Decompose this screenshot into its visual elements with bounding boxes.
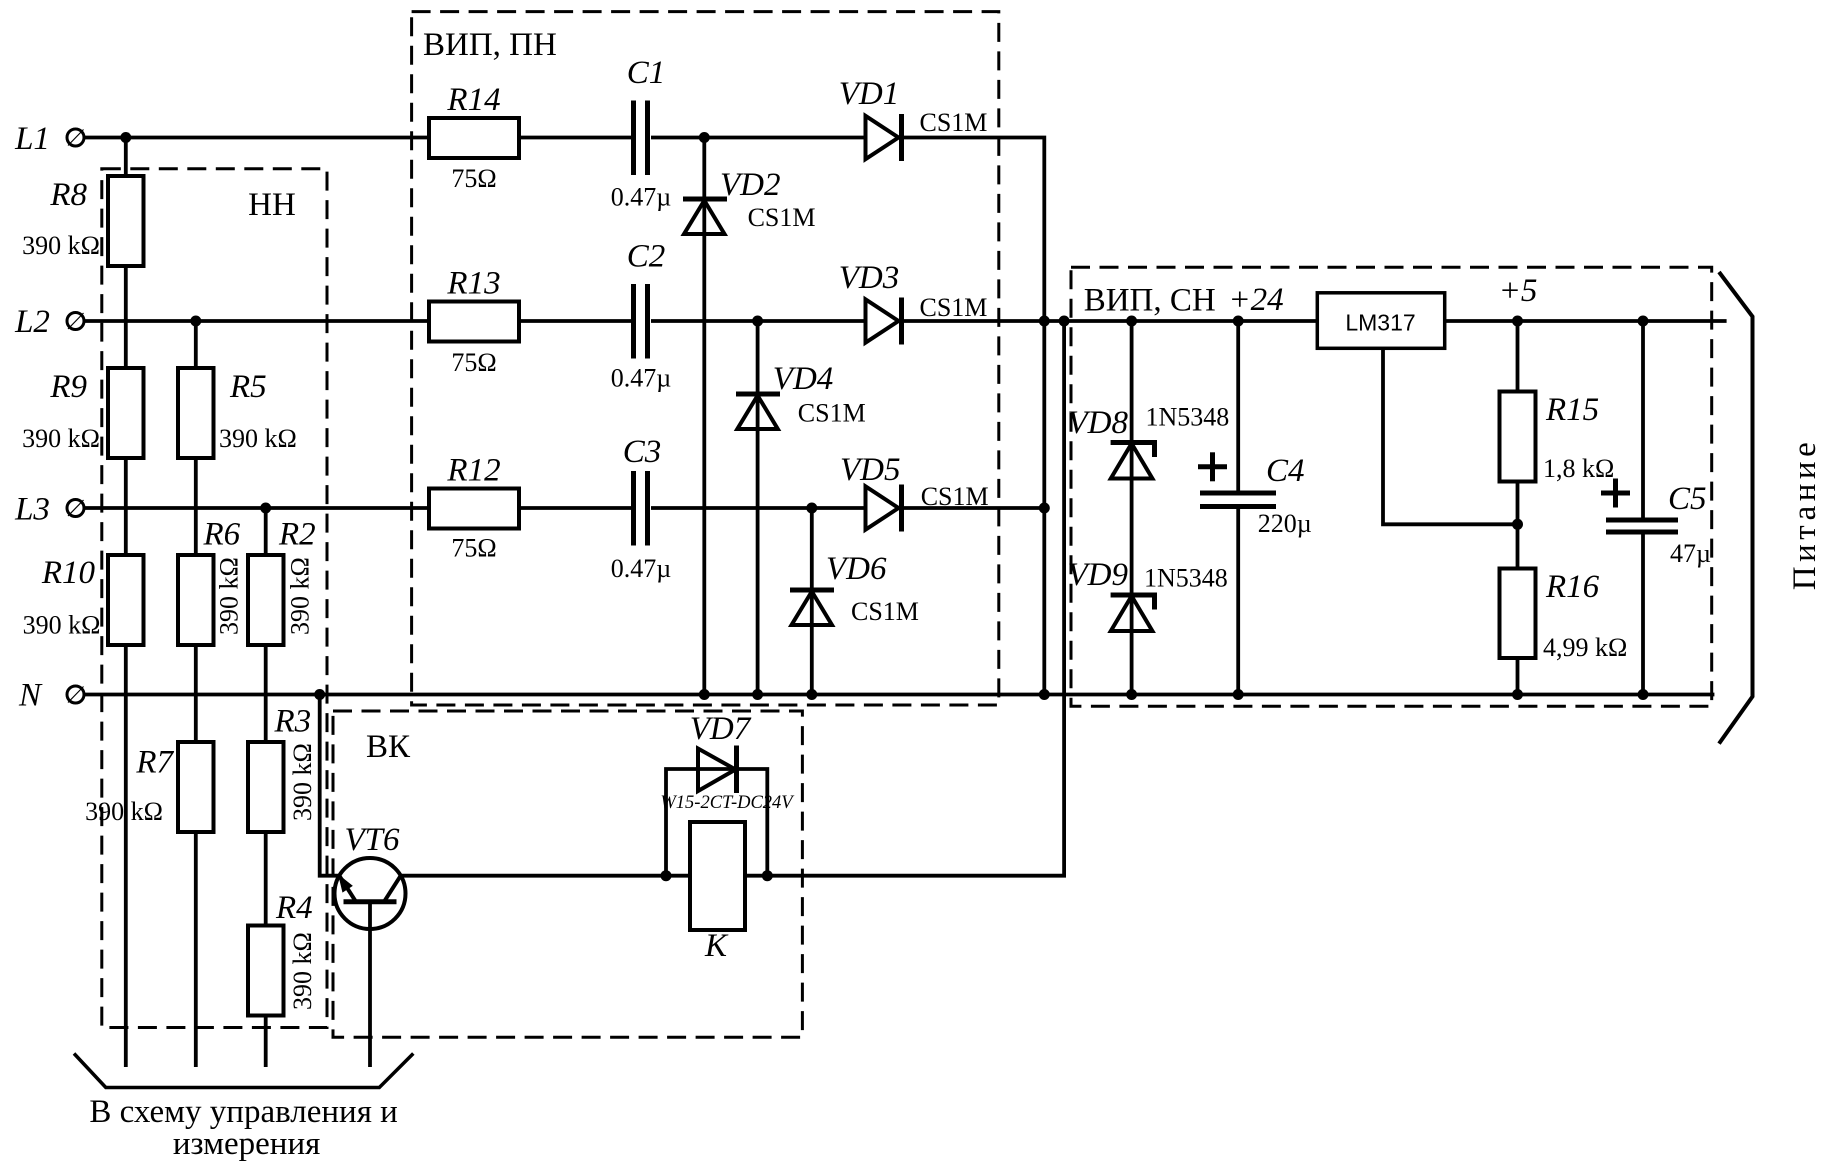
junction L1 / R8 column <box>120 132 131 143</box>
wire N to VT6 emitter <box>320 695 340 876</box>
zener diode VD8 <box>1111 443 1155 479</box>
svg-text:1,8 kΩ: 1,8 kΩ <box>1543 454 1614 483</box>
resistor R14 <box>429 118 519 158</box>
wire R15 R16 branch <box>1516 321 1520 695</box>
node N terminal <box>67 686 84 703</box>
block ВИП, ПН dashed box <box>412 12 999 705</box>
wire relay riser +24 to relay <box>401 321 1064 876</box>
junction +5 / R15 <box>1512 316 1523 327</box>
wire L2 rail / +24 rail <box>83 319 1727 323</box>
svg-text:R5: R5 <box>229 369 267 405</box>
junction relay left / VD7 <box>661 870 672 881</box>
svg-text:390 kΩ: 390 kΩ <box>286 557 315 635</box>
junction bus / VD5 output <box>1039 503 1050 514</box>
svg-text:VD6: VD6 <box>826 551 887 587</box>
diode VD5 <box>866 485 902 532</box>
svg-text:390 kΩ: 390 kΩ <box>215 557 244 635</box>
junction L3 / R2 column <box>260 503 271 514</box>
junction L1 / VD2 branch <box>699 132 710 143</box>
diode VD6 <box>790 590 834 625</box>
block НН dashed box <box>102 169 327 1028</box>
transistor Q1 VT6 <box>335 858 406 929</box>
node L3 terminal <box>67 500 84 517</box>
junction +24 / C4 <box>1233 316 1244 327</box>
svg-text:ВИП, ПН: ВИП, ПН <box>423 27 557 63</box>
wire VD4 branch <box>756 321 760 695</box>
svg-text:В схему управления и: В схему управления и <box>89 1094 397 1130</box>
diode VD1 <box>866 114 902 161</box>
svg-text:измерения: измерения <box>173 1126 320 1162</box>
svg-text:Питание: Питание <box>1787 438 1823 590</box>
wire L3 rail <box>83 506 1045 510</box>
node L1 terminal <box>67 129 84 146</box>
svg-text:47µ: 47µ <box>1670 539 1711 568</box>
svg-text:W15-2CT-DC24V: W15-2CT-DC24V <box>660 793 795 813</box>
svg-text:0.47µ: 0.47µ <box>611 183 672 212</box>
junction N / VD4 <box>752 689 763 700</box>
svg-text:C2: C2 <box>627 239 666 275</box>
resistor R3 <box>248 742 284 832</box>
resistor R7 <box>178 742 214 832</box>
svg-text:CS1M: CS1M <box>851 597 919 626</box>
capacitor C1 <box>634 101 648 176</box>
svg-text:R13: R13 <box>446 266 500 302</box>
svg-text:VD2: VD2 <box>720 167 781 203</box>
wire VD7 loop <box>666 769 767 876</box>
svg-text:220µ: 220µ <box>1258 509 1312 538</box>
svg-text:R8: R8 <box>49 177 87 213</box>
svg-text:VD8: VD8 <box>1068 405 1129 441</box>
junction N / VD2 <box>699 689 710 700</box>
svg-text:C5: C5 <box>1668 481 1707 517</box>
resistor R15 <box>1500 392 1536 482</box>
junction N / VT6 branch <box>314 689 325 700</box>
svg-text:LM317: LM317 <box>1345 310 1415 336</box>
svg-text:CS1M: CS1M <box>920 293 988 322</box>
junction +24 / relay riser <box>1059 316 1070 327</box>
svg-text:L2: L2 <box>14 304 50 340</box>
zener diode VD9 <box>1111 595 1155 631</box>
svg-text:CS1M: CS1M <box>748 203 816 232</box>
junction +24 / VD8 <box>1126 316 1137 327</box>
svg-text:VD4: VD4 <box>773 361 834 397</box>
svg-text:0.47µ: 0.47µ <box>611 364 672 393</box>
wire VT6 base lead <box>368 902 372 1067</box>
resistor R10 <box>108 555 144 645</box>
resistor R12 <box>429 489 519 529</box>
svg-text:VD1: VD1 <box>839 76 900 112</box>
svg-text:R2: R2 <box>278 517 316 553</box>
svg-text:VT6: VT6 <box>344 822 400 858</box>
svg-text:1N5348: 1N5348 <box>1144 564 1228 593</box>
junction L2 / VD4 branch <box>752 316 763 327</box>
svg-text:VD7: VD7 <box>690 711 752 747</box>
svg-text:390 kΩ: 390 kΩ <box>219 424 297 453</box>
junction N / bus <box>1039 689 1050 700</box>
junction L3 / VD6 branch <box>806 503 817 514</box>
junction N / C5 <box>1638 689 1649 700</box>
wire LM317 adj <box>1383 348 1518 524</box>
svg-text:R14: R14 <box>446 82 500 118</box>
svg-text:CS1M: CS1M <box>921 482 989 511</box>
junction +24 bus / VD3 output <box>1039 316 1050 327</box>
diode VD2 <box>683 199 727 234</box>
svg-text:N: N <box>18 678 43 714</box>
resistor R2 <box>248 555 284 645</box>
wire VD6 branch <box>810 508 814 695</box>
resistor R4 <box>248 926 284 1016</box>
svg-text:L1: L1 <box>14 121 50 157</box>
capacitor C4 <box>1198 452 1276 506</box>
svg-text:R4: R4 <box>275 890 313 926</box>
svg-text:75Ω: 75Ω <box>451 164 496 193</box>
junction LM317 adj / R15 R16 <box>1512 519 1523 530</box>
svg-text:НН: НН <box>248 187 296 223</box>
svg-text:C4: C4 <box>1266 453 1305 489</box>
svg-text:75Ω: 75Ω <box>451 534 496 563</box>
svg-text:R6: R6 <box>203 517 241 553</box>
svg-text:L3: L3 <box>14 492 50 528</box>
svg-text:+24: +24 <box>1228 282 1283 318</box>
svg-text:VD3: VD3 <box>839 260 900 296</box>
wire N rail <box>83 693 1715 697</box>
svg-text:ВИП, СН: ВИП, СН <box>1084 283 1216 319</box>
capacitor C5 <box>1601 479 1678 533</box>
svg-text:390 kΩ: 390 kΩ <box>22 231 100 260</box>
svg-text:390 kΩ: 390 kΩ <box>22 424 100 453</box>
brace Питание <box>1719 272 1753 744</box>
resistor R8 <box>108 176 144 266</box>
diode VD3 <box>866 298 902 345</box>
resistor R6 <box>178 555 214 645</box>
svg-text:CS1M: CS1M <box>920 108 988 137</box>
capacitor C2 <box>634 284 648 359</box>
svg-text:390 kΩ: 390 kΩ <box>288 932 317 1010</box>
block ВК dashed box <box>333 711 802 1037</box>
svg-text:R9: R9 <box>49 369 87 405</box>
node L2 terminal <box>67 313 84 330</box>
svg-text:0.47µ: 0.47µ <box>611 554 672 583</box>
resistor R16 <box>1500 569 1536 659</box>
junction N / VD6 <box>806 689 817 700</box>
svg-text:390 kΩ: 390 kΩ <box>288 743 317 821</box>
svg-text:4,99 kΩ: 4,99 kΩ <box>1543 633 1627 662</box>
svg-text:+5: +5 <box>1499 273 1538 309</box>
brace to control circuit <box>74 1054 413 1088</box>
svg-text:R15: R15 <box>1545 392 1599 428</box>
svg-text:390 kΩ: 390 kΩ <box>23 611 101 640</box>
relay coil K <box>690 822 745 930</box>
svg-text:1N5348: 1N5348 <box>1146 403 1230 432</box>
junction +5 / C5 <box>1638 316 1649 327</box>
svg-text:390 kΩ: 390 kΩ <box>85 797 163 826</box>
wire C4 branch <box>1236 321 1240 695</box>
svg-text:C1: C1 <box>627 55 666 91</box>
wire column C (R2-R3-R4) <box>264 508 268 1067</box>
diode VD4 <box>736 394 780 429</box>
wire VD2 branch <box>702 138 706 695</box>
svg-text:CS1M: CS1M <box>798 399 866 428</box>
wire column B (R5-R6-R7) <box>194 321 198 1067</box>
block ВИП, СН dashed box <box>1071 267 1712 706</box>
svg-text:R12: R12 <box>446 453 500 489</box>
wire L1 rail <box>83 138 1045 695</box>
wire VD8 VD9 branch <box>1130 321 1134 695</box>
junction N / R16 <box>1512 689 1523 700</box>
junction N / C4 <box>1233 689 1244 700</box>
svg-text:75Ω: 75Ω <box>451 348 496 377</box>
svg-text:R3: R3 <box>274 704 312 740</box>
regulator U1 LM317 <box>1317 293 1444 349</box>
diode VD7 <box>698 746 737 794</box>
svg-text:R7: R7 <box>135 745 174 781</box>
svg-text:VD9: VD9 <box>1068 557 1129 593</box>
junction L2 / R5 column <box>190 316 201 327</box>
resistor R13 <box>429 302 519 342</box>
resistor R9 <box>108 368 144 458</box>
svg-text:ВК: ВК <box>366 729 411 765</box>
capacitor C3 <box>634 471 648 546</box>
svg-text:R10: R10 <box>41 555 96 591</box>
resistor R5 <box>178 368 214 458</box>
svg-text:C3: C3 <box>623 434 662 470</box>
svg-text:VD5: VD5 <box>840 452 901 488</box>
junction N / VD9 <box>1126 689 1137 700</box>
wire column A (R8-R9-R10) <box>124 138 128 1068</box>
svg-text:R16: R16 <box>1545 569 1600 605</box>
wire C5 branch <box>1641 321 1645 695</box>
svg-text:K: K <box>704 928 729 964</box>
junction relay right / VD7 <box>762 870 773 881</box>
